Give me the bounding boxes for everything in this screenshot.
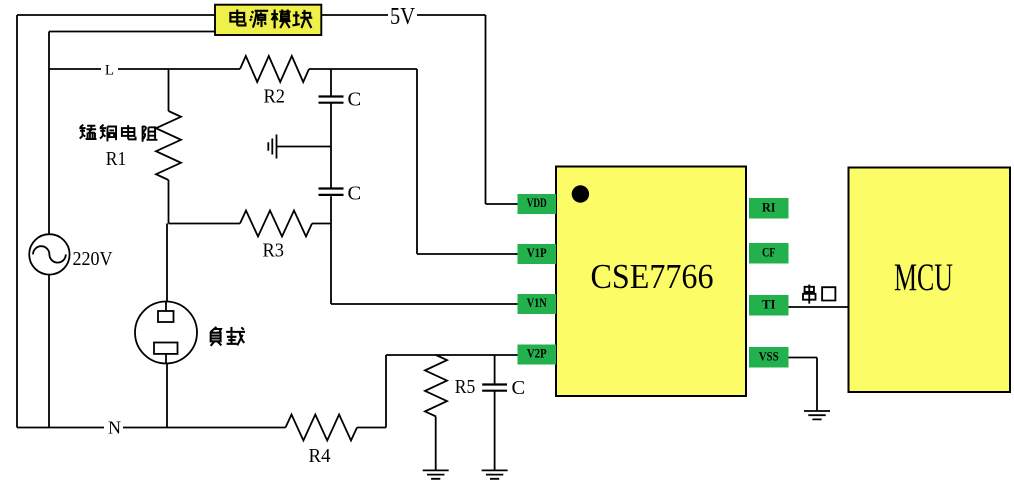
wire VSS to ground [789,358,818,412]
pin V2P [518,345,557,365]
resistor R5 [425,355,447,470]
svg-text:N: N [108,418,121,438]
wire N-to-power-module top [17,15,215,428]
label C (V2P filter) [512,377,526,399]
pin VSS [749,347,789,368]
svg-text:V1P: V1P [527,245,547,260]
resistor R2 [240,56,309,82]
svg-text:C: C [348,183,362,205]
node L [105,62,114,78]
svg-text:R1: R1 [106,148,127,170]
label R5 [455,376,476,398]
label R1 [106,148,127,170]
load (socket symbol) [135,302,197,364]
label R3 [263,240,285,262]
svg-text:L: L [105,62,114,78]
label 锰铜电阻 [79,125,157,142]
svg-text:220V: 220V [73,249,113,270]
svg-text:MCU: MCU [894,256,953,299]
wire L line [49,69,518,254]
label 220V [73,249,113,270]
label C (lower) [348,183,362,205]
ground under R5 [423,470,449,478]
wire L-to-power-module [49,32,215,428]
wire 5V net [321,15,517,204]
resistor R3 [240,211,312,237]
capacitor C1 (upper) [319,97,344,103]
ground at VSS [804,411,830,419]
svg-text:RI: RI [762,199,776,214]
power source V1 220V [29,234,69,274]
op chip U1 CSE7766 body [556,167,746,397]
pin VDD [518,194,557,214]
label R2 [264,86,286,108]
pin V1N [518,294,557,314]
svg-text:CSE7766: CSE7766 [591,257,714,296]
chip U2 MCU [849,168,1011,393]
wire TI to MCU (serial) [789,306,849,308]
pin RI [749,198,789,219]
capacitor C4 (V2P filter) [482,355,507,470]
svg-text:C: C [512,377,526,399]
node N [108,418,121,438]
svg-text:R4: R4 [309,445,331,467]
wire load branch [166,224,168,428]
svg-text:R5: R5 [455,376,476,398]
svg-text:5V: 5V [390,4,416,30]
svg-text:V2P: V2P [527,346,547,361]
svg-text:VSS: VSS [759,348,779,363]
svg-text:R3: R3 [263,240,285,262]
ground under C4 [482,470,508,478]
node 5V [390,4,416,30]
label CSE7766 [591,257,714,296]
svg-text:TI: TI [762,296,776,311]
pin-1 dot [572,185,589,202]
svg-text:CF: CF [762,244,776,259]
wire N line [17,427,286,429]
svg-text:VDD: VDD [527,195,547,210]
svg-text:R2: R2 [264,86,286,108]
label MCU [894,256,953,299]
power module box [215,5,321,35]
resistor R4 [286,415,358,441]
wire V2P net [357,355,518,428]
capacitor C2 (lower) [319,189,344,195]
pin TI [749,295,789,316]
label R4 [309,445,331,467]
wire R3 row [169,223,332,225]
resistor R1 manganin shunt [156,69,181,224]
ground tap (middle) [268,135,331,159]
label 负载 [211,327,245,346]
pin CF [749,243,789,264]
label C (upper) [348,89,362,111]
svg-text:V1N: V1N [527,295,547,310]
pin V1P [518,244,557,264]
svg-text:C: C [348,89,362,111]
wire capacitor chain / V1N net [331,69,518,304]
label 串口 [803,285,835,304]
